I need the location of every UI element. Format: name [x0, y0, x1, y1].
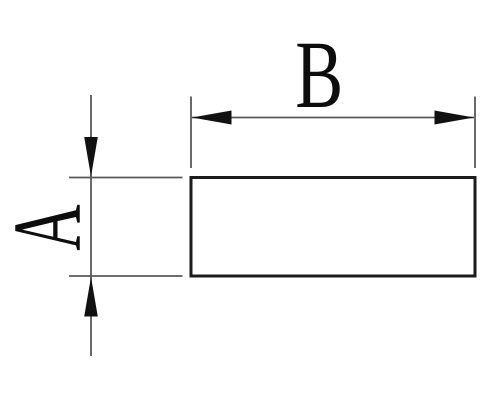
svg-text:B: B	[295, 22, 343, 128]
extension line A top	[69, 177, 183, 179]
arrowhead A top (pointing down)	[84, 137, 98, 177]
arrowhead A bottom (pointing up)	[84, 277, 98, 317]
extension line B right	[474, 97, 476, 169]
extension line B left	[190, 97, 192, 169]
arrowhead B left	[192, 111, 232, 125]
rectangle outline (part profile)	[191, 178, 475, 277]
arrowhead B right	[435, 111, 475, 125]
dimension line A	[90, 95, 92, 356]
dimension line B	[192, 117, 474, 119]
svg-text:A: A	[0, 204, 101, 250]
extension line A bottom	[69, 275, 183, 277]
